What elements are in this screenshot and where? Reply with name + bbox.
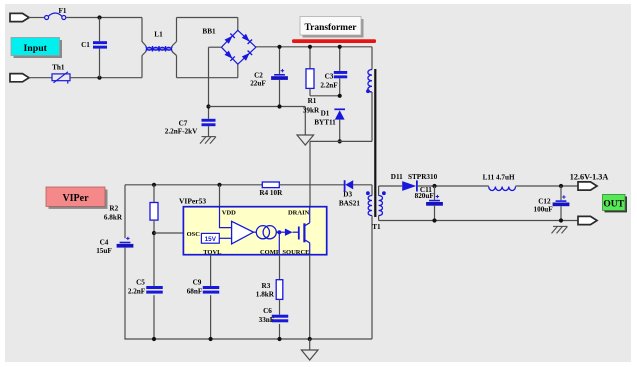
connector output plus [578, 182, 597, 190]
wire [379, 185, 403, 187]
wire [353, 184, 372, 186]
U1 internal comp line [278, 232, 280, 255]
node gnd rail left [206, 104, 210, 108]
wire [237, 64, 239, 78]
bridge rectifier BB1 [221, 30, 256, 64]
T1 aux polarity dot [366, 191, 370, 195]
resistor R3 [276, 280, 283, 300]
node clamp [338, 94, 342, 98]
label Transformer box [300, 17, 364, 38]
svg-text:39kR: 39kR [303, 107, 320, 115]
U1 internal line 15V to amp [219, 237, 231, 239]
svg-text:L11 4.7uH: L11 4.7uH [483, 174, 515, 182]
wire [256, 46, 372, 48]
svg-text:BYT11: BYT11 [314, 119, 336, 127]
transformer T1 core [374, 69, 376, 217]
wire [29, 77, 52, 79]
svg-text:R4 10R: R4 10R [259, 189, 283, 197]
svg-text:12.6V-1.3A: 12.6V-1.3A [570, 173, 609, 182]
T1 primary polarity dot [366, 89, 370, 93]
wire drain link [310, 140, 372, 142]
wire [141, 18, 143, 43]
svg-text:Input: Input [23, 43, 47, 54]
resistor R2 [153, 185, 155, 203]
node VDD tap [217, 183, 221, 187]
node OSC [152, 231, 156, 235]
wire SOURCE [309, 255, 311, 339]
ground triangle primary [304, 107, 306, 136]
ground earth secondary [552, 226, 568, 233]
svg-text:2.2nF-2kV: 2.2nF-2kV [165, 128, 198, 136]
svg-text:C6: C6 [263, 307, 272, 315]
capacitor C12 [560, 186, 562, 200]
wire ground rail [124, 338, 372, 340]
connector J2 line input bottom [10, 74, 29, 82]
U1 internal mosfet [293, 223, 310, 243]
svg-text:VIPer53: VIPer53 [179, 196, 206, 205]
node line2-C1 [97, 76, 101, 80]
svg-text:Th1: Th1 [52, 64, 65, 72]
wire [417, 185, 489, 187]
wire [141, 56, 143, 78]
capacitor C2 [279, 47, 281, 74]
wire [209, 46, 222, 48]
IC U1 VIPer53 body [183, 207, 326, 255]
svg-text:OUT: OUT [603, 199, 624, 209]
wire [237, 18, 239, 31]
svg-text:2.2nF: 2.2nF [320, 82, 338, 90]
capacitor C3 [339, 47, 341, 71]
capacitor C6 [272, 315, 289, 323]
capacitor C9 [203, 286, 220, 294]
wire TOVL [210, 255, 212, 286]
inductor L1 winding bottom [142, 52, 177, 56]
wire [209, 106, 306, 108]
transformer T1 secondary winding [378, 186, 380, 196]
svg-text:C12: C12 [538, 198, 551, 206]
svg-text:C9: C9 [193, 279, 202, 287]
wire OSC [154, 232, 183, 234]
node C12 bottom [559, 218, 563, 222]
diode D11 [402, 180, 417, 191]
fuse F1 [45, 13, 66, 20]
wire COMP [279, 255, 281, 280]
svg-text:C5: C5 [136, 279, 145, 287]
wire left rail [124, 185, 126, 239]
svg-text:1.8kR: 1.8kR [256, 291, 275, 299]
capacitor C4 [117, 237, 134, 248]
svg-text:BAS21: BAS21 [339, 200, 361, 208]
transformer T1 auxiliary winding [371, 185, 373, 196]
svg-text:2.2nF: 2.2nF [128, 288, 146, 296]
wire [516, 185, 579, 187]
node C2 top [277, 45, 281, 49]
U1 internal comp node [277, 230, 281, 234]
wire [176, 18, 178, 42]
wire [177, 17, 238, 19]
node C11 bottom [432, 218, 436, 222]
svg-text:D3: D3 [343, 191, 352, 199]
node drain link [338, 139, 342, 143]
node C6 gnd [277, 337, 281, 341]
node C9 gnd [209, 337, 213, 341]
wire VDD pin [219, 185, 221, 207]
wire [70, 77, 142, 79]
T1 secondary polarity dot [382, 191, 386, 195]
diode D1 [334, 109, 345, 119]
node C2 bottom [277, 104, 281, 108]
svg-text:VIPer: VIPer [62, 193, 89, 204]
svg-text:STPR310: STPR310 [408, 173, 438, 181]
svg-text:C3: C3 [325, 73, 334, 81]
U1 internal gate arrow [285, 229, 293, 236]
svg-text:F1: F1 [59, 7, 67, 15]
svg-text:SOURCE: SOURCE [282, 249, 309, 256]
transformer T1 primary winding [371, 47, 373, 70]
svg-text:COMP: COMP [260, 249, 280, 256]
U1 internal VDD line [220, 207, 232, 228]
inductor L1 core [147, 48, 172, 50]
svg-text:R2: R2 [109, 205, 118, 213]
wire VDD rail [125, 184, 262, 186]
label OUT box [603, 194, 628, 212]
svg-text:6.8kR: 6.8kR [104, 214, 123, 222]
node C5 gnd [152, 337, 156, 341]
svg-text:Transformer: Transformer [304, 23, 357, 33]
resistor R4 [262, 182, 279, 188]
svg-text:DRAIN: DRAIN [288, 210, 310, 217]
wire [208, 47, 210, 119]
U1 internal source line [309, 243, 311, 255]
diode D3 [345, 180, 354, 191]
U1 internal current source [254, 226, 285, 239]
node R2 top [152, 183, 156, 187]
ground earth below C7 [200, 137, 216, 144]
svg-text:OSC: OSC [187, 231, 201, 238]
svg-text:D11: D11 [391, 173, 403, 181]
svg-text:22uF: 22uF [250, 80, 266, 88]
U1 internal error amp [232, 221, 254, 244]
wire drain down [309, 141, 311, 206]
svg-text:C2: C2 [254, 72, 263, 80]
svg-text:BB1: BB1 [202, 28, 216, 36]
node C12 top [559, 184, 563, 188]
inductor L11 [489, 187, 516, 191]
svg-text:15uF: 15uF [96, 247, 112, 255]
wire [176, 56, 178, 78]
resistor R1 [309, 47, 311, 69]
capacitor C11 [434, 186, 436, 200]
svg-text:D1: D1 [321, 110, 330, 118]
capacitor C5 [146, 286, 163, 294]
U1 internal 15V reference [201, 233, 219, 243]
inductor L1 winding top [142, 42, 177, 47]
wire [29, 17, 45, 19]
svg-text:R3: R3 [262, 282, 271, 290]
node C3 top [338, 45, 342, 49]
svg-text:33nF: 33nF [259, 316, 275, 324]
node C11 top [432, 184, 436, 188]
svg-text:C1: C1 [81, 41, 90, 49]
wire [279, 184, 345, 186]
connector output return [578, 216, 597, 224]
svg-text:TOVL: TOVL [203, 249, 222, 256]
svg-text:15V: 15V [205, 236, 217, 243]
wire [177, 77, 238, 79]
node source gnd [308, 337, 312, 341]
node R1 top [308, 45, 312, 49]
connector J1 line input top [10, 13, 29, 21]
ground triangle main [309, 339, 311, 350]
svg-text:T1: T1 [372, 223, 381, 231]
U1 internal drain line [309, 207, 311, 223]
label VIPer box [46, 187, 108, 209]
thermistor Th1 [52, 72, 70, 84]
svg-text:68nF: 68nF [187, 288, 203, 296]
svg-text:820uF: 820uF [415, 192, 435, 200]
node line1-C1 [97, 15, 101, 19]
capacitor C1 [99, 18, 101, 42]
wire [66, 17, 142, 19]
wire secondary return [379, 220, 578, 222]
svg-text:C4: C4 [100, 239, 109, 247]
svg-text:100uF: 100uF [534, 206, 554, 214]
transformer red underline [292, 39, 376, 43]
svg-text:L1: L1 [154, 31, 163, 39]
svg-text:C7: C7 [179, 120, 188, 128]
label Input box [11, 38, 62, 59]
svg-text:R1: R1 [308, 97, 317, 105]
svg-text:VDD: VDD [222, 210, 236, 217]
capacitor C7 [202, 119, 216, 126]
